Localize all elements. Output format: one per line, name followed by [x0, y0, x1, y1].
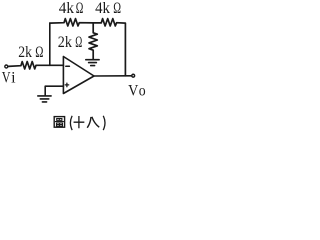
svg-text:2k: 2k	[58, 34, 72, 51]
svg-text:i: i	[11, 69, 16, 86]
svg-text:V: V	[2, 69, 11, 86]
svg-text:4k: 4k	[95, 0, 110, 17]
svg-text:Ω: Ω	[76, 0, 84, 17]
svg-text:2k: 2k	[18, 44, 32, 61]
svg-text:Ω: Ω	[113, 0, 121, 17]
svg-text:Ω: Ω	[75, 34, 82, 51]
svg-text:Ω: Ω	[35, 44, 43, 61]
svg-text:V: V	[128, 82, 139, 99]
svg-text:4k: 4k	[59, 0, 74, 17]
svg-text:o: o	[139, 82, 146, 99]
